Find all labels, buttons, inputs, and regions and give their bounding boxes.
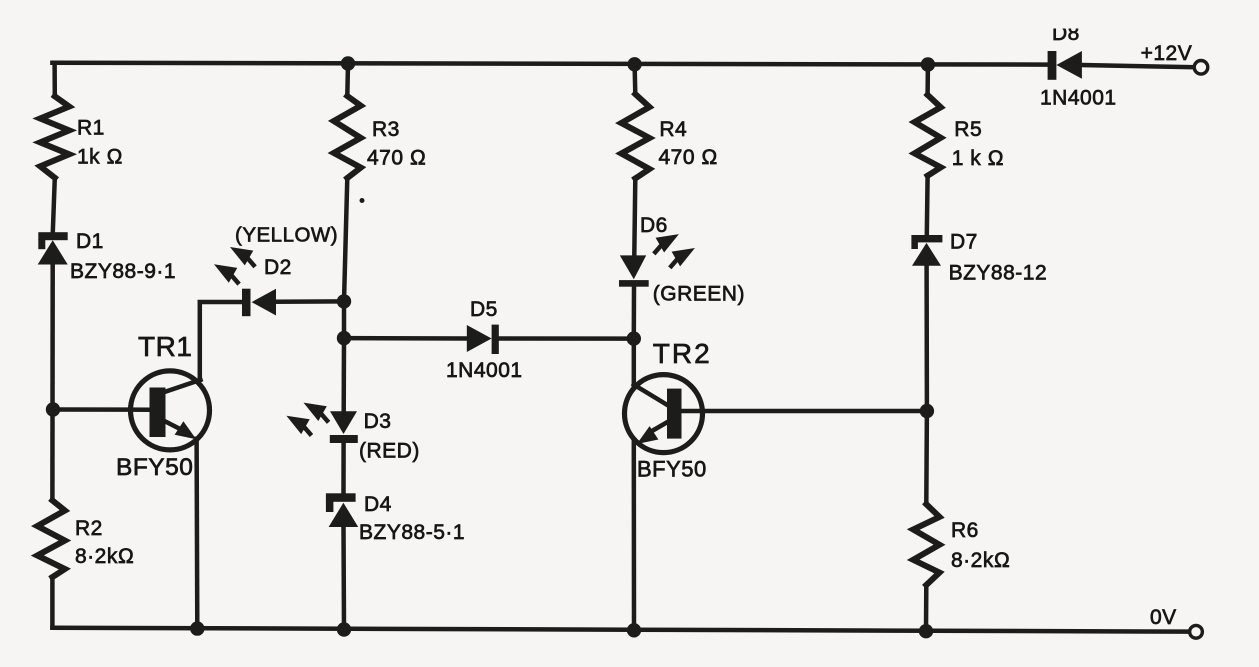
svg-text:R3: R3 bbox=[372, 118, 400, 141]
svg-text:1N4001: 1N4001 bbox=[446, 359, 523, 382]
diode D5 (1N4001) bbox=[467, 325, 499, 354]
wire bbox=[924, 411, 929, 504]
svg-text:D3: D3 bbox=[364, 410, 392, 433]
svg-text:D5: D5 bbox=[470, 298, 498, 321]
LED D2 (YELLOW) with wires bbox=[276, 299, 344, 304]
svg-text:D4: D4 bbox=[364, 493, 392, 516]
diode D5 wires bbox=[344, 336, 467, 341]
node D5 left junction bbox=[337, 331, 351, 345]
LED D6 light arrow bbox=[655, 234, 679, 252]
wire bbox=[925, 176, 930, 235]
svg-text:TR2: TR2 bbox=[653, 338, 712, 369]
svg-text:R2: R2 bbox=[75, 517, 103, 540]
svg-text:BZY88-5·1: BZY88-5·1 bbox=[359, 521, 465, 544]
LED D2 light arrow bbox=[230, 247, 254, 265]
wire bbox=[341, 338, 346, 411]
svg-text:BFY50: BFY50 bbox=[116, 454, 193, 481]
svg-text:R4: R4 bbox=[659, 118, 687, 141]
wire bottom rail bbox=[52, 628, 1189, 632]
svg-text:470 Ω: 470 Ω bbox=[659, 146, 719, 169]
wire branch 4 vertical top bbox=[925, 65, 930, 95]
stray ink speck bbox=[360, 198, 365, 203]
wire bbox=[50, 577, 55, 628]
svg-text:8·2kΩ: 8·2kΩ bbox=[75, 545, 134, 568]
node D5 right junction bbox=[627, 331, 641, 345]
wire +12V feed bbox=[1082, 65, 1194, 67]
LED D3 light arrow bbox=[286, 416, 310, 434]
resistor R4 bbox=[621, 94, 649, 178]
wire left branch vertical bbox=[52, 63, 57, 97]
svg-text:R1: R1 bbox=[77, 116, 105, 139]
transistor TR2 bbox=[625, 375, 703, 453]
svg-text:R6: R6 bbox=[951, 519, 979, 542]
wire bbox=[499, 336, 634, 341]
svg-text:(RED): (RED) bbox=[359, 440, 420, 463]
wire bbox=[344, 178, 347, 301]
terminal 0V bbox=[1190, 625, 1203, 638]
node bottom rail branch2 bbox=[337, 622, 351, 636]
resistor R1 bbox=[40, 96, 69, 178]
svg-text:0V: 0V bbox=[1150, 606, 1177, 629]
node TR1 base junction bbox=[46, 402, 60, 416]
wire bbox=[924, 585, 929, 631]
wire bbox=[634, 179, 635, 256]
svg-text:8·2kΩ: 8·2kΩ bbox=[951, 549, 1010, 572]
LED D6 light arrow bbox=[671, 248, 695, 266]
wire TR2 base bbox=[682, 409, 927, 414]
svg-text:R5: R5 bbox=[954, 118, 982, 141]
svg-text:D2: D2 bbox=[264, 256, 292, 279]
svg-text:D6: D6 bbox=[640, 214, 668, 237]
node top rail branch2 bbox=[341, 56, 355, 70]
wire branch 2 vertical top bbox=[345, 64, 350, 97]
diode D4 (zener BZY88-5.1) bbox=[326, 493, 358, 527]
wire branch 3 vertical top bbox=[632, 64, 637, 94]
wire bbox=[200, 302, 242, 380]
svg-text:(YELLOW): (YELLOW) bbox=[235, 224, 338, 247]
svg-text:1N4001: 1N4001 bbox=[1040, 87, 1117, 110]
svg-text:BFY50: BFY50 bbox=[637, 457, 707, 482]
LED D3 light arrow bbox=[304, 403, 328, 421]
node top rail branch4 bbox=[921, 57, 935, 71]
svg-text:470 Ω: 470 Ω bbox=[367, 146, 427, 169]
diode D8 (1N4001) bbox=[1048, 51, 1082, 80]
svg-text:+12V: +12V bbox=[1141, 42, 1193, 65]
LED D3 (RED) bbox=[330, 411, 358, 443]
svg-text:1k Ω: 1k Ω bbox=[77, 146, 123, 169]
svg-text:D7: D7 bbox=[950, 231, 978, 254]
wire bbox=[632, 287, 637, 339]
LED D6 (GREEN) bbox=[619, 255, 649, 286]
wire bbox=[53, 178, 55, 232]
LED D2 bbox=[242, 289, 276, 317]
wire bbox=[342, 301, 347, 338]
svg-text:BZY88-9·1: BZY88-9·1 bbox=[70, 260, 176, 283]
LED D2 light arrow bbox=[214, 264, 238, 282]
wire TR2 emitter down bbox=[632, 443, 637, 631]
node bottom rail branch3 bbox=[627, 623, 641, 637]
svg-text:BZY88-12: BZY88-12 bbox=[949, 261, 1048, 284]
wire TR2 collector bbox=[632, 339, 637, 385]
transistor TR1 bbox=[131, 371, 210, 450]
wire TR1 emitter down bbox=[194, 439, 199, 629]
wire bbox=[50, 265, 55, 501]
node D2 junction bbox=[337, 294, 351, 308]
diode D7 (zener BZY88-12) bbox=[911, 235, 942, 266]
resistor R6 bbox=[913, 504, 939, 585]
svg-text:D1: D1 bbox=[76, 230, 104, 253]
resistor R2 bbox=[37, 500, 65, 577]
wire bbox=[341, 443, 346, 493]
resistor R3 bbox=[334, 96, 361, 178]
svg-text:TR1: TR1 bbox=[138, 331, 192, 362]
wire top rail bbox=[52, 63, 1047, 65]
diode D1 (zener BZY88-9.1) bbox=[38, 232, 68, 264]
wire TR1 base bbox=[53, 407, 149, 412]
node top rail branch3 bbox=[627, 57, 641, 71]
wire bbox=[924, 266, 929, 411]
node bottom rail TR1 emitter bbox=[190, 621, 204, 635]
terminal +12V bbox=[1194, 61, 1208, 75]
node TR2 base junction bbox=[920, 404, 934, 418]
wire bbox=[341, 527, 346, 630]
resistor R5 bbox=[915, 95, 941, 176]
svg-text:1 k Ω: 1 k Ω bbox=[952, 147, 1004, 170]
node bottom rail branch4 bbox=[919, 624, 933, 638]
svg-text:(GREEN): (GREEN) bbox=[653, 283, 745, 306]
